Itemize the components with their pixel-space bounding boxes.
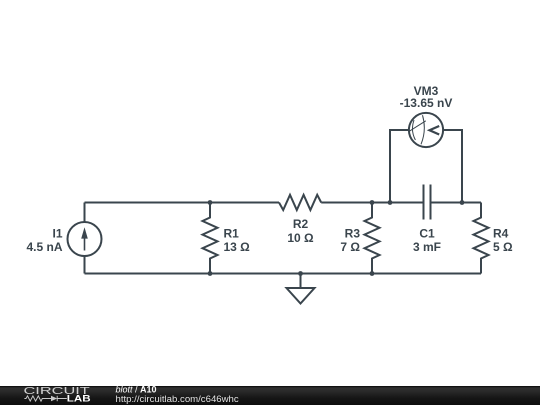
svg-text:R4: R4 xyxy=(493,226,509,240)
svg-text:R2: R2 xyxy=(293,217,309,231)
svg-text:R3: R3 xyxy=(345,226,361,240)
svg-text:10 Ω: 10 Ω xyxy=(287,231,314,245)
wire from R2 to C1 left plate xyxy=(321,202,423,204)
junction node R1 top xyxy=(208,200,213,205)
svg-text:3 mF: 3 mF xyxy=(413,240,441,254)
svg-text:LAB: LAB xyxy=(67,393,91,404)
wire VM3 right lead xyxy=(443,130,463,203)
resistor R3 xyxy=(365,203,380,274)
wire bottom rail xyxy=(85,273,482,275)
wire VM3 left lead xyxy=(390,130,410,203)
resistor R4 xyxy=(474,203,489,274)
junction node VM3 right tap xyxy=(460,200,465,205)
resistor R2 xyxy=(279,195,321,210)
svg-text:13 Ω: 13 Ω xyxy=(224,240,251,254)
junction node R1 bottom xyxy=(208,271,213,276)
junction node ground tap xyxy=(298,271,303,276)
logo resistor-diode glyph xyxy=(24,396,66,401)
svg-text:4.5 nA: 4.5 nA xyxy=(26,240,62,254)
junction node R3 bottom xyxy=(370,271,375,276)
svg-text:C1: C1 xyxy=(419,226,435,240)
resistor R1 xyxy=(203,203,218,274)
svg-text:7 Ω: 7 Ω xyxy=(340,240,360,254)
capacitor C1 xyxy=(424,185,431,220)
current source I1 xyxy=(68,203,102,274)
junction node VM3 left tap xyxy=(388,200,393,205)
voltmeter VM3 xyxy=(409,113,443,147)
svg-text:http://circuitlab.com/c646whc: http://circuitlab.com/c646whc xyxy=(116,394,239,405)
footer bar xyxy=(0,386,540,405)
ground xyxy=(287,274,315,304)
svg-text:5 Ω: 5 Ω xyxy=(493,240,513,254)
wire from C1 right plate to R4 corner xyxy=(431,202,482,204)
junction node R3 top xyxy=(370,200,375,205)
wire top-left segment from I1 to R2 xyxy=(85,202,280,204)
svg-text:-13.65 nV: -13.65 nV xyxy=(400,96,453,110)
svg-text:I1: I1 xyxy=(52,226,62,240)
svg-text:R1: R1 xyxy=(224,226,240,240)
